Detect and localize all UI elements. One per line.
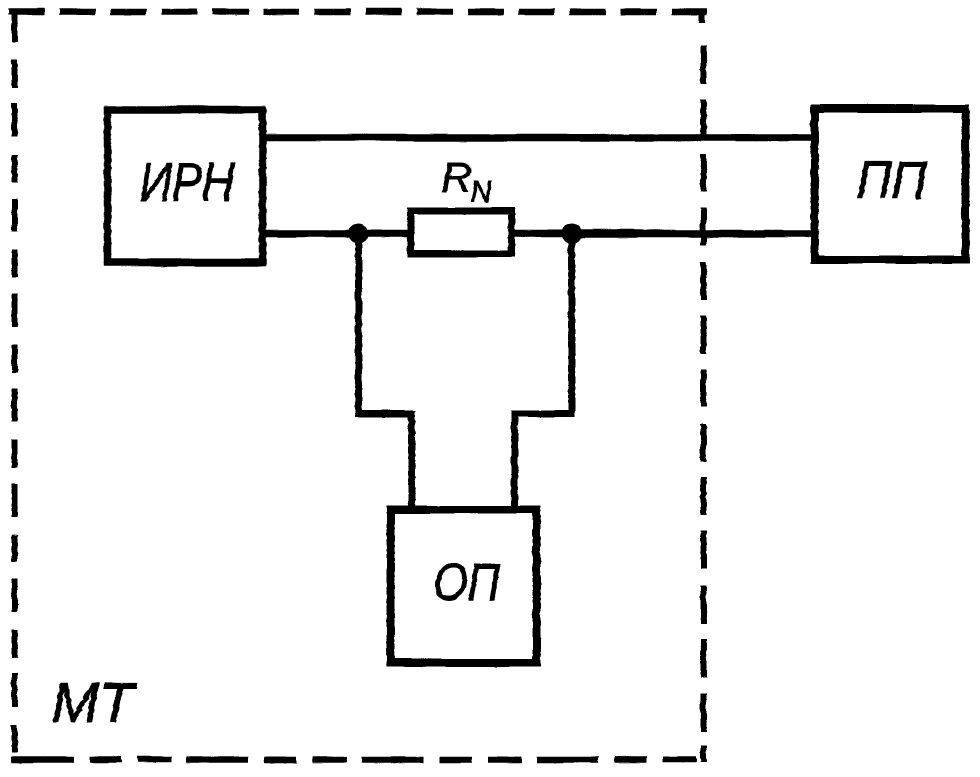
dashed enclosure MT : right side — [700, 45, 706, 742]
svg-text:ОП: ОП — [433, 553, 499, 611]
wire: node B to PP — [513, 229, 812, 237]
block OP (bottom box) — [390, 509, 536, 662]
wire: IRN to node A — [263, 229, 408, 237]
dashed enclosure MT : left side — [11, 8, 17, 762]
junction node B — [561, 223, 581, 243]
block PP (right box, outside MT) — [814, 108, 965, 259]
svg-text:R: R — [441, 153, 471, 200]
svg-text:МТ: МТ — [51, 671, 137, 733]
junction node A — [348, 223, 368, 243]
resistor RN body — [410, 210, 511, 253]
dashed enclosure MT : top side — [8, 8, 706, 15]
block IRN (voltage regulator source) — [107, 109, 262, 262]
svg-text:ПП: ПП — [856, 151, 927, 210]
svg-text:N: N — [470, 176, 491, 208]
dashed enclosure MT : top-right corner stub — [698, 8, 704, 22]
dashed enclosure MT : bottom-right corner stub — [700, 745, 706, 762]
wire: node A down-step to OP left lead — [358, 236, 411, 507]
wire: node B down-step to OP right lead — [514, 236, 571, 507]
svg-text:ИРН: ИРН — [139, 150, 234, 212]
dashed enclosure MT : bottom side — [11, 756, 707, 763]
wire: top IRN to PP — [263, 133, 812, 141]
